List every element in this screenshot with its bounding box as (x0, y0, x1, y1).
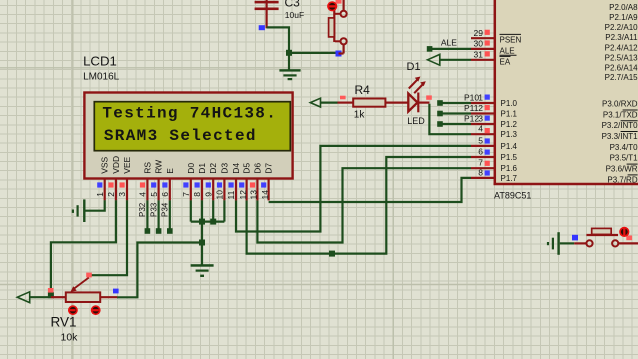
node: RV1 left pin marker (48, 288, 54, 293)
node: R4 left pin marker (340, 96, 346, 100)
svg-text:VSS: VSS (100, 156, 110, 173)
wire VSS to ground (84, 200, 104, 210)
LCD pin 2 VDD (106, 156, 121, 201)
pin 5 P1.4 (471, 135, 518, 151)
svg-text:P3.7/RD: P3.7/RD (607, 175, 637, 184)
svg-text:AT89C51: AT89C51 (494, 191, 531, 201)
node: P10 wire end dot (437, 100, 443, 106)
junction D1 (199, 219, 205, 225)
wire terminal to R4 (321, 101, 338, 103)
pin 29 PSEN (471, 28, 522, 45)
svg-text:4: 4 (138, 192, 148, 197)
wire to button left (574, 242, 586, 244)
svg-text:P34: P34 (161, 202, 170, 217)
svg-text:P3.3/INT1: P3.3/INT1 (602, 132, 638, 141)
svg-text:1: 1 (95, 192, 105, 197)
wire ground to button (560, 242, 574, 244)
ground (below LCD) (191, 264, 214, 277)
junction on D5 wire (329, 251, 335, 257)
svg-text:R4: R4 (355, 83, 371, 97)
wire junction to button (289, 52, 336, 54)
LCD pin 4 RS (138, 162, 153, 201)
svg-text:P2.7/A15: P2.7/A15 (605, 73, 638, 82)
LCD LCD1 body (84, 93, 292, 179)
wire P12 (440, 123, 471, 125)
LED D1 (407, 61, 430, 126)
svg-text:Testing 74HC138.: Testing 74HC138. (102, 104, 277, 122)
LCD pin 12 D5 (238, 163, 252, 201)
terminal arrow (RV1 left) (17, 292, 29, 303)
wire P1.7 to LCD D7 (269, 178, 471, 202)
svg-text:LM016L: LM016L (83, 72, 120, 83)
IC right side pin names P2.0-P2.7 (605, 3, 638, 82)
svg-text:LED: LED (407, 116, 425, 126)
svg-text:8: 8 (478, 167, 483, 177)
svg-text:VEE: VEE (122, 156, 132, 173)
wire D3 down (223, 200, 225, 221)
junction RV1 left (48, 292, 54, 298)
svg-text:ALE: ALE (500, 47, 515, 56)
svg-text:D1: D1 (197, 163, 207, 174)
LCD pin 5 RW (149, 160, 164, 201)
node: P11 wire end dot (437, 111, 443, 117)
LCD pin 10 D3 (215, 163, 230, 201)
pin 4 P1.3 (471, 124, 518, 140)
wire P1.5 to LCD D5 (247, 157, 471, 254)
push button (bottom right) (586, 227, 638, 247)
svg-text:D2: D2 (208, 163, 218, 174)
wire ALE (430, 48, 471, 50)
node: ALE wire end dot (427, 46, 433, 52)
svg-text:3: 3 (117, 192, 127, 197)
IC right side pin names P3.0-P3.7 (602, 100, 638, 185)
node: C3 bottom pin marker (259, 25, 265, 30)
svg-text:P2.6/A14: P2.6/A14 (605, 63, 638, 72)
svg-text:14: 14 (260, 190, 270, 200)
wire D0-D3 bus tie (191, 221, 225, 223)
pin 3 P1.2 (464, 113, 518, 128)
svg-text:6: 6 (478, 146, 483, 156)
pin 7 P1.6 (471, 158, 518, 174)
svg-text:E: E (165, 168, 175, 174)
resistor R4 (338, 83, 409, 120)
svg-text:RV1: RV1 (51, 314, 77, 329)
svg-text:P11: P11 (464, 103, 479, 113)
svg-text:12: 12 (238, 190, 248, 200)
wire D-net to RV1 right (117, 243, 202, 298)
svg-text:8: 8 (192, 192, 202, 197)
LCD pin 13 D6 (249, 163, 263, 201)
LCD pin 7 D0 (181, 163, 196, 201)
svg-text:P2.2/A10: P2.2/A10 (605, 23, 638, 32)
terminal arrow (R4 input) (310, 98, 320, 107)
wire RW stub (158, 200, 160, 231)
push button (top) (327, 0, 347, 54)
node: E wire end dot (167, 228, 173, 234)
svg-text:D1: D1 (407, 61, 421, 73)
svg-text:5: 5 (149, 192, 159, 197)
svg-text:P10: P10 (464, 93, 479, 103)
wire C3 to junction (267, 27, 289, 70)
svg-text:31: 31 (474, 49, 484, 59)
node: button left pin marker (572, 235, 578, 241)
LCD pin 14 D7 (260, 163, 274, 201)
svg-text:D3: D3 (219, 163, 229, 174)
wire P10 (440, 102, 471, 104)
svg-text:LCD1: LCD1 (83, 53, 117, 68)
wire RS stub (146, 200, 148, 231)
ground (bottom right, rotated) (547, 232, 560, 255)
wire P11 (440, 112, 471, 114)
potentiometer RV1 (51, 278, 118, 344)
svg-text:29: 29 (474, 28, 484, 38)
pin 6 P1.5 (471, 146, 518, 162)
wire EA (440, 59, 471, 61)
wire D1 down (201, 200, 203, 264)
svg-text:P2.4/A12: P2.4/A12 (605, 43, 638, 52)
svg-text:D7: D7 (264, 163, 274, 174)
pin 1 P1.0 (464, 92, 518, 108)
svg-text:PSEN: PSEN (500, 35, 522, 44)
junction D2 (210, 219, 216, 225)
node: RW wire end dot (156, 228, 162, 234)
svg-text:P3.2/INT0: P3.2/INT0 (602, 121, 638, 130)
svg-text:7: 7 (478, 158, 483, 168)
svg-text:13: 13 (249, 190, 259, 200)
pin 8 P1.7 (471, 167, 518, 183)
svg-text:2: 2 (106, 192, 116, 197)
wire P1.3 to LED (429, 104, 471, 134)
node: RV1 wiper pin marker (86, 273, 92, 278)
svg-text:P1.7: P1.7 (501, 174, 518, 183)
svg-text:9: 9 (203, 192, 213, 197)
svg-text:P33: P33 (149, 202, 158, 217)
svg-text:P3.1/TXD: P3.1/TXD (603, 110, 638, 119)
svg-text:6: 6 (160, 192, 170, 197)
node: P12 wire end dot (437, 121, 443, 127)
svg-text:RW: RW (154, 160, 164, 174)
wire P1.4 to LCD D4 (236, 146, 471, 232)
LCD pin 1 VSS (95, 156, 110, 200)
junction D-net to RV1 (199, 240, 205, 246)
svg-text:P12: P12 (464, 114, 479, 124)
svg-text:P3.4/T0: P3.4/T0 (610, 143, 638, 152)
wire P1.6 to LCD D6 (257, 168, 471, 242)
wire terminal to RV1 (30, 296, 51, 298)
svg-text:EA: EA (500, 58, 511, 67)
pin 2 P1.1 (464, 103, 518, 119)
svg-text:D0: D0 (186, 163, 196, 174)
ground (left of LCD, rotated) (72, 199, 86, 222)
svg-text:10k: 10k (61, 332, 79, 344)
svg-text:P1.2: P1.2 (501, 120, 518, 129)
LCD pin 3 VEE (117, 156, 132, 200)
svg-text:P2.0/A8: P2.0/A8 (609, 3, 638, 12)
svg-text:P1.3: P1.3 (501, 130, 518, 139)
svg-text:P1.4: P1.4 (501, 142, 518, 151)
svg-text:ALE: ALE (441, 37, 457, 47)
svg-text:P32: P32 (138, 202, 147, 217)
svg-text:P3.0/RXD: P3.0/RXD (602, 100, 638, 109)
node: RS wire end dot (145, 228, 151, 234)
svg-text:D4: D4 (231, 163, 241, 174)
svg-text:P3.5/T1: P3.5/T1 (610, 154, 638, 163)
node: button bottom pin marker (336, 51, 342, 57)
junction (286, 50, 292, 56)
svg-text:4: 4 (478, 124, 483, 134)
pin 31 EA (471, 49, 511, 66)
LCD pin 6 E (160, 168, 175, 201)
svg-text:RS: RS (142, 162, 152, 174)
svg-text:1k: 1k (354, 110, 366, 121)
wire VDD to RV1 left (51, 200, 116, 295)
svg-text:P1.0: P1.0 (501, 99, 518, 108)
capacitor C3 (255, 0, 305, 28)
svg-text:7: 7 (181, 192, 191, 197)
wire E stub (169, 200, 171, 231)
svg-text:P1.6: P1.6 (501, 164, 518, 173)
svg-text:5: 5 (478, 135, 483, 145)
svg-text:VDD: VDD (111, 156, 121, 174)
pin 30 ALE (471, 39, 517, 56)
ground (top centre) (279, 69, 300, 80)
LCD pin 9 D2 (203, 163, 218, 201)
svg-text:D6: D6 (252, 163, 262, 174)
svg-text:2: 2 (478, 103, 483, 113)
node: RV1 right pin marker (113, 289, 119, 294)
svg-text:P2.5/A13: P2.5/A13 (605, 53, 638, 62)
svg-text:C3: C3 (285, 0, 301, 10)
LCD pin 11 D4 (226, 163, 241, 201)
wire D2 down (212, 200, 214, 221)
wire VEE to RV1 wiper (89, 200, 127, 275)
svg-text:P1.1: P1.1 (501, 109, 518, 118)
svg-text:10: 10 (215, 190, 225, 200)
LCD pin 8 D1 (192, 163, 207, 201)
terminal arrow EA (428, 54, 440, 65)
svg-text:P2.3/A11: P2.3/A11 (605, 33, 638, 42)
svg-text:P3.6/WR: P3.6/WR (606, 165, 638, 174)
svg-text:SRAM3 Selected: SRAM3 Selected (104, 127, 257, 145)
IC U1 AT89C51 body (494, 0, 638, 201)
wire D0 down (190, 200, 192, 221)
svg-text:30: 30 (474, 39, 484, 49)
svg-text:P2.1/A9: P2.1/A9 (609, 13, 638, 22)
svg-text:10uF: 10uF (285, 10, 304, 20)
node: LED cathode pin marker (426, 95, 432, 99)
svg-text:D5: D5 (242, 163, 252, 174)
svg-text:11: 11 (226, 190, 236, 199)
svg-text:P1.5: P1.5 (501, 153, 518, 162)
